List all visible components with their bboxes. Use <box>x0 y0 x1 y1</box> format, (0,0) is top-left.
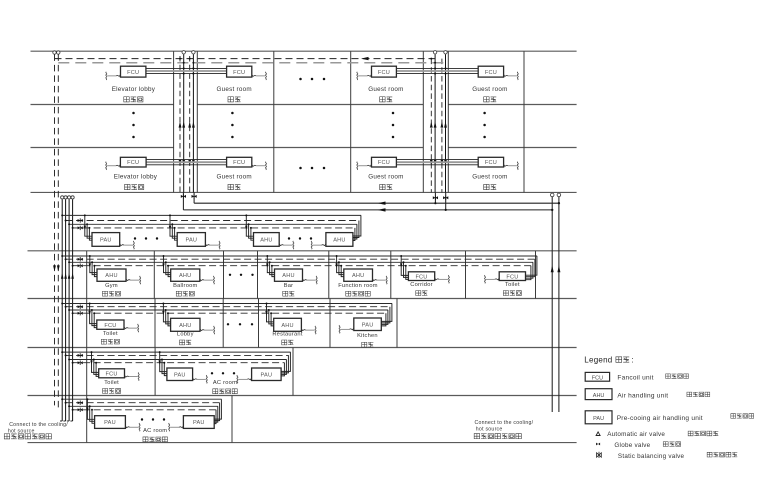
svg-text:FCU: FCU <box>127 160 139 166</box>
svg-text:PAU: PAU <box>100 238 112 244</box>
wire FCU branch pipes row1 right <box>396 67 478 69</box>
svg-text:Guest room: Guest room <box>368 86 403 93</box>
wire header drop shaft1 <box>182 192 184 210</box>
svg-text:FCU: FCU <box>378 160 390 166</box>
flow arrow on top main <box>361 57 369 60</box>
node podium room boundaries row P5 <box>86 396 88 443</box>
pre-cooling air handling unit legend PAU <box>585 411 612 424</box>
svg-text:Guest room: Guest room <box>472 174 507 181</box>
svg-text:Guest room: Guest room <box>368 174 403 181</box>
fan coil unit FCU toilet P2 <box>499 272 525 281</box>
fan coil unit FCU guest room B row3 <box>227 157 252 167</box>
svg-text:Guest room: Guest room <box>216 86 251 93</box>
globe valve shaft2 a <box>433 196 438 200</box>
svg-text:FCU: FCU <box>506 274 518 280</box>
wire bundle row P2 <box>62 255 537 257</box>
fan coil unit FCU guest room D row1 <box>372 66 397 77</box>
air handling unit legend AHU <box>585 389 612 400</box>
wire top floor main (gray dashed) <box>58 62 445 64</box>
wire bundle row P5 <box>62 398 221 400</box>
svg-text:AHU: AHU <box>179 273 191 279</box>
svg-text:Guest room: Guest room <box>216 174 251 181</box>
pre-cooling AHU PAU kitchen <box>354 318 382 331</box>
svg-text:Gym: Gym <box>105 283 118 289</box>
wire header drop shaft2 <box>434 192 436 203</box>
svg-text:PAU: PAU <box>174 372 186 378</box>
wire podium floor 3 <box>28 298 577 300</box>
air handling unit AHU gym <box>97 269 126 281</box>
globe valve legend symbol <box>596 443 598 446</box>
svg-text:PAU: PAU <box>104 420 116 426</box>
node ellipsis row P2 <box>229 274 231 276</box>
fan coil unit FCU elevator lobby row3 <box>120 157 146 167</box>
wire podium roof line <box>31 191 577 193</box>
globe valve shaft1 a <box>181 194 186 198</box>
svg-text:FCU: FCU <box>485 70 497 76</box>
svg-text:FCU: FCU <box>233 70 245 76</box>
wire roof line tower <box>31 50 577 52</box>
svg-text:AHU: AHU <box>260 238 272 244</box>
svg-text:Pre-cooing air handling unit: Pre-cooing air handling unit <box>617 415 703 422</box>
svg-text:AHU: AHU <box>105 273 117 279</box>
wire FCU branch pipes row3 left <box>146 159 227 161</box>
svg-text:FCU: FCU <box>233 160 245 166</box>
fan coil unit FCU toilet P3 <box>97 320 124 329</box>
svg-text:AHU: AHU <box>282 273 294 279</box>
node ellipsis row P3 <box>227 323 229 325</box>
automatic air valve on shaft 1 risers <box>182 51 185 54</box>
wire main header 1 <box>194 202 559 204</box>
wire FCU branch pipes row3 right <box>396 159 478 161</box>
svg-text:Toilet: Toilet <box>505 282 520 288</box>
static balancing valves on branch <box>78 257 83 261</box>
node ellipsis row P1 b <box>288 237 290 239</box>
svg-text:AHU: AHU <box>281 323 293 329</box>
static balancing valves on branch <box>78 305 83 309</box>
svg-text:Lobby: Lobby <box>177 332 194 338</box>
svg-text:PAU: PAU <box>261 372 273 378</box>
air handling unit AHU restaurant <box>274 318 302 331</box>
svg-text:Bar: Bar <box>284 283 294 289</box>
wire right riser pair to source <box>551 197 553 412</box>
svg-text:FCU: FCU <box>415 274 427 280</box>
svg-text:PAU: PAU <box>593 416 604 422</box>
node podium room boundaries row P3 <box>86 299 88 348</box>
svg-text:AHU: AHU <box>333 238 345 244</box>
pre-cooling AHU PAU-1 AC room P4 <box>167 368 193 381</box>
air handling unit AHU bar <box>275 269 303 281</box>
svg-text:FCU: FCU <box>592 375 603 381</box>
static balancing valve legend symbol <box>597 453 599 457</box>
svg-text:Air handling unit: Air handling unit <box>617 392 668 399</box>
svg-text:Function room: Function room <box>338 283 378 289</box>
air handling unit AHU lobby <box>171 318 200 331</box>
flow arrows right riser pair (up) <box>551 265 554 272</box>
node vertical ellipsis row2 <box>132 112 135 115</box>
flow arrows on headers <box>378 202 386 205</box>
node ellipsis row3 col C <box>299 167 302 170</box>
node tower column lines <box>173 51 175 192</box>
svg-text:Corridor: Corridor <box>410 282 433 288</box>
wire podium floor 5 <box>28 395 577 397</box>
fan coil unit FCU elevator lobby row1 <box>121 66 146 77</box>
pre-cooling AHU PAU-2 AC room P4 <box>252 368 282 381</box>
svg-text:FCU: FCU <box>106 371 118 377</box>
node ellipsis row P5 <box>141 418 143 420</box>
node ellipsis row P4 <box>211 372 213 374</box>
automatic air valve legend symbol <box>596 432 600 436</box>
pre-cooling AHU PAU-1 AC room P5 <box>95 416 126 429</box>
air handling unit AHU function room <box>344 269 373 281</box>
svg-text:Restaurant: Restaurant <box>272 332 302 338</box>
svg-text:PAU: PAU <box>362 322 374 328</box>
wire podium floor 2 <box>28 250 577 252</box>
svg-text:FCU: FCU <box>485 160 497 166</box>
wire main header 2 <box>183 209 552 211</box>
node podium room boundaries row P4 <box>86 348 88 396</box>
pre-cooling AHU PAU-1 row P1 <box>92 233 120 247</box>
svg-text:AHU: AHU <box>352 273 364 279</box>
node podium room boundaries row P2 <box>86 251 88 299</box>
wire bundle row P3 <box>62 303 392 305</box>
node ellipsis row P1 a <box>134 237 136 239</box>
wire FCU branch pipes row1 left <box>146 67 227 69</box>
svg-text:AC room: AC room <box>213 380 237 386</box>
node ellipsis row1 col C <box>299 78 302 81</box>
svg-text:Fancoil unit: Fancoil unit <box>617 374 653 381</box>
wire ground line <box>28 442 577 444</box>
flow arrows left dashed pair (down) <box>53 265 56 271</box>
svg-text:Guest room: Guest room <box>472 86 507 93</box>
fan coil unit FCU toilet P4 <box>99 369 125 378</box>
flow arrows shaft risers row 3 (down) <box>179 160 182 166</box>
automatic air valve on shaft 2 risers <box>433 51 436 54</box>
svg-text:Connect to the cooling/: Connect to the cooling/ <box>475 420 534 426</box>
svg-text:Globe valve: Globe valve <box>614 442 650 449</box>
wire floor line tower 2 <box>31 104 174 106</box>
static balancing valves on branch <box>78 353 83 357</box>
flow arrows podium risers (up) <box>61 273 64 279</box>
svg-text:PAU: PAU <box>185 238 197 244</box>
fan coil unit FCU guest room E row3 <box>478 157 503 167</box>
static balancing valves on branch <box>78 218 83 222</box>
fan coil unit FCU corridor <box>408 272 434 281</box>
svg-text:Elevator lobby: Elevator lobby <box>114 174 158 181</box>
static balancing valves on branch <box>78 401 83 405</box>
air handling unit AHU-2 row P1 <box>326 233 353 247</box>
globe valve shaft1 b <box>192 194 197 198</box>
pre-cooling AHU PAU-2 row P1 <box>177 233 205 247</box>
svg-text:Toilet: Toilet <box>103 331 118 337</box>
svg-text:Legend: Legend <box>584 356 612 365</box>
svg-text:FCU: FCU <box>378 70 390 76</box>
wire shaft 2 risers <box>430 59 432 193</box>
svg-text:FCU: FCU <box>127 70 139 76</box>
globe valve shaft2 b <box>443 196 448 200</box>
wire bundle row P1 <box>62 214 361 216</box>
air handling unit AHU ballroom <box>171 269 200 281</box>
svg-text:Elevator lobby: Elevator lobby <box>112 86 156 93</box>
wire riser pair left (dashed supply/return) <box>54 54 56 405</box>
pre-cooling AHU PAU-2 AC room P5 <box>183 416 214 429</box>
svg-text:AHU: AHU <box>179 323 191 329</box>
fan coil unit FCU guest room B row1 <box>227 66 252 77</box>
wire shaft 1 risers <box>179 56 181 192</box>
flow arrows shaft risers row 2 (up) <box>179 121 182 127</box>
fan coil unit legend FCU <box>585 372 609 381</box>
svg-text:hot source: hot source <box>476 427 503 433</box>
wire floor line tower 3 <box>31 147 174 149</box>
svg-text::: : <box>632 356 634 365</box>
fan coil unit FCU guest room E row1 <box>478 66 503 77</box>
wire top floor main (dashed) <box>55 58 436 60</box>
wire podium floor 4 <box>28 347 577 349</box>
svg-text:AHU: AHU <box>593 393 605 399</box>
svg-text:Toilet: Toilet <box>104 380 119 386</box>
svg-text:Connect to the cooling/: Connect to the cooling/ <box>9 422 68 428</box>
svg-text:Ballroom: Ballroom <box>173 283 197 289</box>
svg-text:Automatic air valve: Automatic air valve <box>607 431 665 438</box>
svg-text:Static balancing valve: Static balancing valve <box>618 453 685 460</box>
svg-text:Kitchen: Kitchen <box>357 333 378 339</box>
svg-text:AC room: AC room <box>143 428 167 434</box>
svg-text:FCU: FCU <box>104 323 116 329</box>
wire podium risers (4 pipes) <box>61 199 63 421</box>
svg-text:PAU: PAU <box>193 420 205 426</box>
air handling unit AHU-1 row P1 <box>254 233 280 247</box>
wire bundle row P4 <box>62 351 290 353</box>
automatic air valve on left risers <box>53 51 56 54</box>
fan coil unit FCU guest room D row3 <box>372 157 397 167</box>
